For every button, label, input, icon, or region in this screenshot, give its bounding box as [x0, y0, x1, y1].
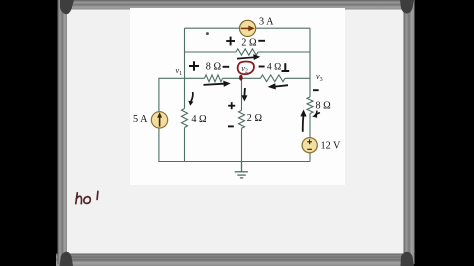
wire: v1 vertical upper segment — [184, 28, 186, 108]
wire: v2 vertical upper segment — [241, 78, 243, 110]
handwritten arrow: current direction on 2-ohm top branch — [237, 54, 260, 60]
wire: v1 vertical lower segment — [184, 128, 186, 162]
current source 5A (left) — [151, 112, 167, 128]
resistor 4 ohm (between v2 and v3) zigzag — [261, 75, 286, 82]
svg-text:2 Ω: 2 Ω — [247, 113, 263, 124]
wire: second rail (2-ohm branch) left segment — [185, 51, 237, 53]
polarity minus of 8-ohm middle branch — [223, 66, 230, 68]
whiteboard frame left bar — [58, 0, 68, 264]
polarity minus of vertical 2-ohm — [228, 125, 234, 127]
wire: top rail (3A branch) from node v1 column to v3 column — [185, 27, 311, 29]
polarity mark (inverted T) of 4-ohm middle branch — [282, 63, 290, 71]
handwritten plus-arrow mark near right 8-ohm bottom — [312, 111, 320, 118]
wire: middle rail between 8-ohm and 4-ohm — [223, 77, 261, 79]
svg-text:8 Ω: 8 Ω — [206, 62, 222, 73]
handwritten arrow: current direction through 8-ohm (rightward) — [204, 81, 231, 87]
resistor 8 ohm (v3 branch) zigzag — [307, 97, 313, 114]
svg-text:3 A: 3 A — [259, 17, 274, 28]
svg-text:4 Ω: 4 Ω — [191, 114, 207, 125]
handwritten text no 1 (maroon) — [76, 191, 98, 203]
polarity + of vertical 2-ohm — [228, 102, 235, 109]
wire: middle rail from 5A column to node v1 — [158, 77, 204, 79]
polarity minus of 4-ohm middle branch — [259, 66, 265, 68]
junction dot at node v2 — [239, 75, 243, 81]
handwritten red circle around node v2 — [238, 62, 254, 75]
current source 3A (top) — [240, 20, 256, 36]
wire: bottom rail — [158, 161, 310, 163]
whiteboard surface — [58, 2, 405, 262]
polarity minus of right 8-ohm — [313, 89, 319, 91]
wire: left vertical with 5A source — [158, 78, 160, 161]
svg-text:2 Ω: 2 Ω — [241, 37, 257, 48]
circuit figure white background — [130, 8, 345, 185]
polarity + of 2-ohm top branch — [226, 37, 235, 46]
voltage source 12V (right) — [302, 138, 317, 153]
wire: 12V source to bottom rail — [309, 152, 311, 162]
handwritten up arrow: current up through right 8-ohm — [300, 110, 306, 132]
wire: second rail right segment — [258, 51, 310, 53]
polarity + of 8-ohm middle branch — [189, 61, 199, 70]
handwritten hook arrow: current into 4-ohm branch — [188, 92, 193, 106]
resistor 2 ohm (v2 to ground) zigzag — [239, 110, 245, 128]
svg-text:12 V: 12 V — [321, 141, 342, 152]
whiteboard frame bottom bar — [56, 254, 410, 266]
wire: v3 vertical to 12V source — [309, 114, 311, 139]
resistor 8 ohm (between v1 and v2) zigzag — [205, 75, 223, 82]
ground symbol at bottom of 2-ohm branch — [235, 162, 248, 178]
polarity minus of 2-ohm top branch — [258, 40, 265, 42]
frame corner cap bottom-right — [401, 252, 415, 266]
resistor 4 ohm (v1 to ground) zigzag — [182, 109, 188, 128]
frame corner cap bottom-left — [60, 252, 74, 266]
wire: v2 vertical lower segment — [241, 128, 243, 161]
resistor 2 ohm (top, between v1 and v3) zigzag — [236, 49, 258, 55]
handwritten arrow: current down into 2-ohm at v2 — [241, 88, 247, 101]
wire: middle rail from 4-ohm to node v3 — [285, 77, 310, 79]
svg-text:4 Ω: 4 Ω — [267, 62, 281, 73]
stray mark on board — [206, 32, 209, 35]
svg-text:5 A: 5 A — [133, 114, 148, 125]
whiteboard frame right bar — [404, 0, 415, 264]
frame corner cap top-right — [400, 0, 414, 14]
svg-text:8 Ω: 8 Ω — [316, 101, 332, 112]
frame corner cap top-left — [60, 0, 74, 14]
handwritten arrow: current direction through 4-ohm (leftward) — [268, 83, 288, 89]
wire: v3 vertical upper segment — [309, 28, 311, 97]
